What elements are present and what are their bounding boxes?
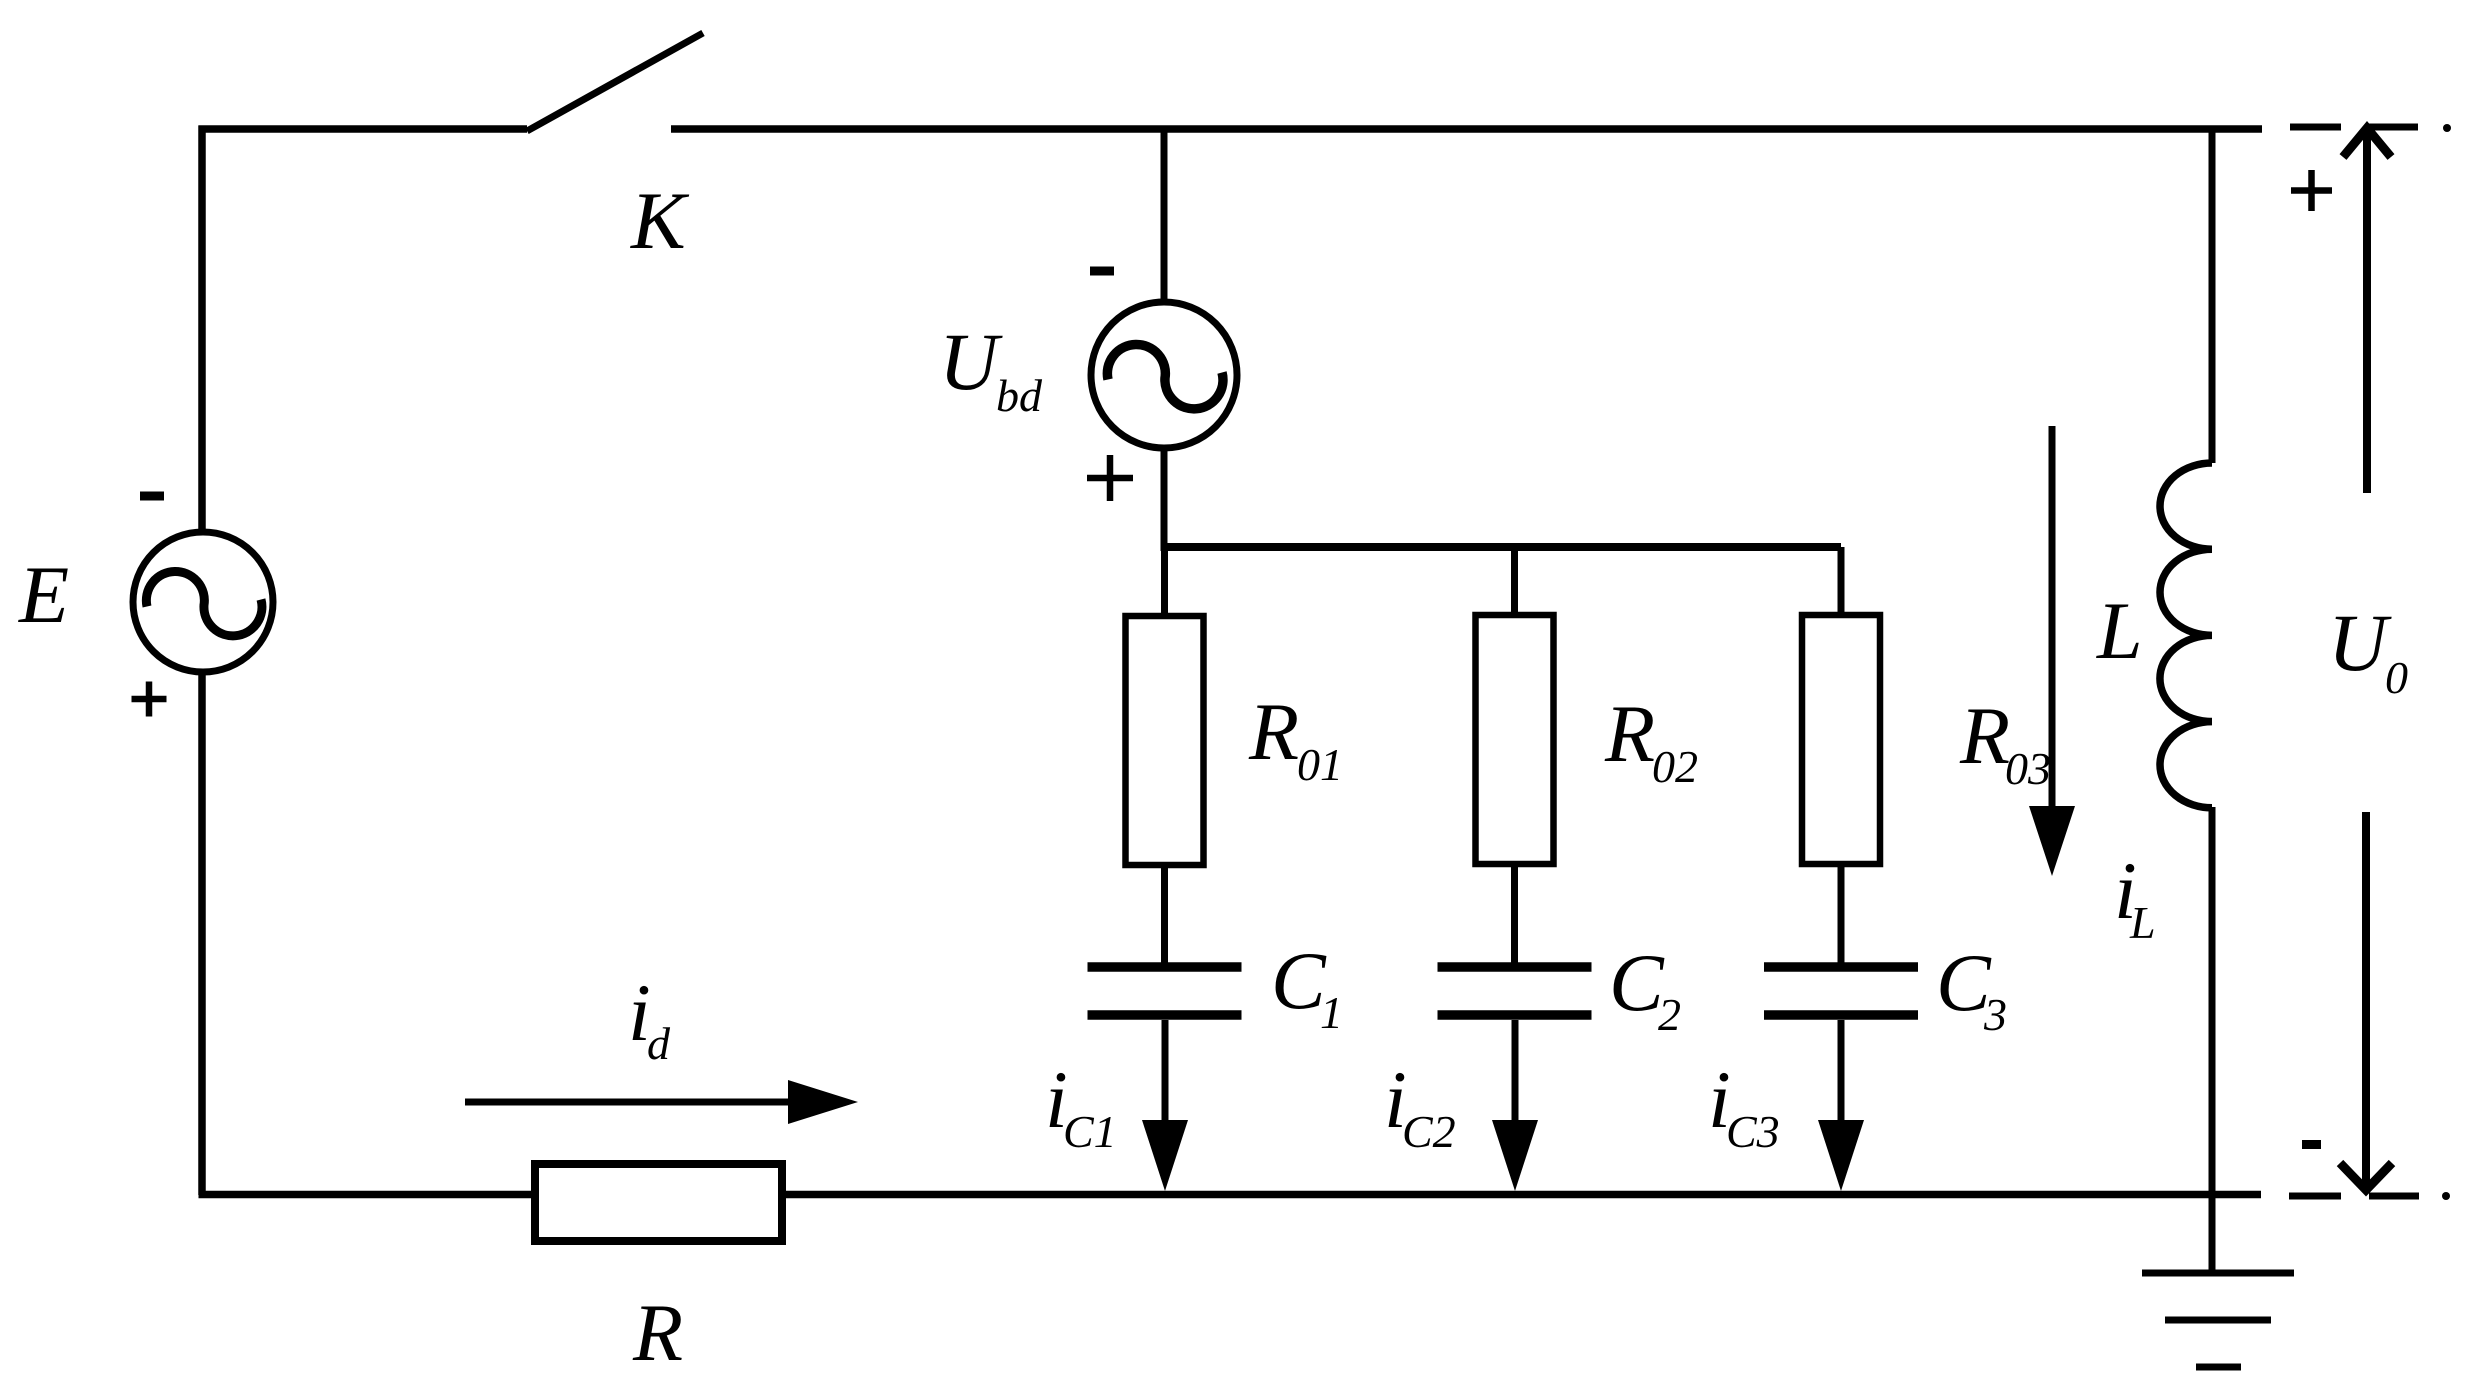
label iC3 (1708, 1054, 1780, 1157)
wire branch3 stub (1838, 547, 1845, 619)
svg-text:3: 3 (1983, 989, 2007, 1040)
wire top-right segment (671, 125, 2262, 133)
svg-text:L: L (2096, 585, 2143, 676)
label C3 (1936, 937, 2007, 1040)
svg-text:R: R (1248, 686, 1299, 777)
ground bar 1 (2142, 1270, 2294, 1277)
wire branch2 stub (1511, 547, 1518, 619)
svg-text:L: L (2129, 897, 2156, 948)
wire branch1 stub (1161, 547, 1168, 619)
current arrow iC1 (1142, 1020, 1188, 1191)
svg-text:1: 1 (1320, 987, 1343, 1038)
wire bottom (199, 1191, 2262, 1199)
svg-text:C2: C2 (1402, 1106, 1456, 1157)
svg-text:C: C (1271, 935, 1327, 1026)
inductor L coils (2160, 463, 2212, 808)
svg-text:bd: bd (996, 370, 1043, 421)
U0 bottom arrow (2340, 812, 2392, 1190)
node junction horizontal wire (1164, 543, 1841, 551)
label iC2 (1384, 1054, 1456, 1157)
svg-text:01: 01 (1297, 739, 1343, 790)
AC source Ubd sine (1107, 344, 1223, 408)
svg-text:U: U (2328, 597, 2392, 688)
E minus sign (140, 492, 164, 501)
svg-text:d: d (647, 1018, 671, 1069)
svg-text:03: 03 (2005, 743, 2051, 794)
label R03 (1959, 690, 2051, 794)
wire Ubd stub top (1161, 129, 1168, 303)
AC source E sine (146, 571, 262, 635)
svg-text:C3: C3 (1726, 1106, 1780, 1157)
label L (2096, 585, 2143, 676)
wire left vertical upper (198, 126, 206, 534)
label C2 (1609, 937, 1681, 1040)
svg-text:C: C (1609, 937, 1665, 1028)
resistor R01 (1126, 616, 1204, 865)
label R (632, 1287, 683, 1378)
wire R03 to C3 (1838, 864, 1845, 963)
wire left vertical lower (198, 672, 206, 1195)
current arrow id (465, 1080, 858, 1124)
capacitor C1 (1088, 967, 1242, 1015)
svg-text:0: 0 (2385, 652, 2408, 703)
label E (18, 549, 69, 640)
resistor R03 (1802, 615, 1880, 864)
Ubd plus sign (1087, 455, 1133, 501)
label iL (2114, 845, 2156, 948)
capacitor C3 (1764, 967, 1918, 1015)
label U0 (2328, 597, 2408, 703)
inductor L wire lower (2209, 807, 2216, 1194)
resistor R02 (1476, 615, 1554, 864)
AC source E circle (133, 532, 273, 672)
AC source Ubd circle (1091, 302, 1237, 448)
resistor R (bottom) (535, 1164, 782, 1241)
svg-text:U: U (939, 316, 1003, 407)
svg-text:K: K (630, 175, 690, 266)
wire R02 to C2 (1511, 864, 1518, 963)
Ubd minus sign (1090, 267, 1114, 276)
U0 plus sign (2291, 170, 2332, 211)
current arrow iC2 (1492, 1020, 1538, 1191)
wire top-left segment (199, 125, 528, 133)
label R02 (1604, 688, 1698, 792)
svg-text:R: R (1959, 690, 2010, 781)
U0 minus sign (2302, 1140, 2321, 1149)
wire Ubd stub bottom (1161, 445, 1168, 551)
capacitor C2 (1438, 967, 1592, 1015)
svg-text:2: 2 (1658, 989, 1681, 1040)
svg-text:R: R (632, 1287, 683, 1378)
label C1 (1271, 935, 1343, 1038)
label id (628, 967, 671, 1069)
ground bar 3 (2196, 1364, 2241, 1371)
switch K label (630, 175, 690, 266)
svg-text:E: E (18, 549, 69, 640)
label iC1 (1045, 1054, 1117, 1157)
svg-text:C1: C1 (1063, 1106, 1117, 1157)
U0 bottom dashed line (2289, 1192, 2450, 1200)
current arrow iC3 (1818, 1020, 1864, 1191)
E plus sign (132, 682, 167, 717)
label Ubd (939, 316, 1043, 421)
U0 top arrow (2343, 128, 2391, 493)
wire R01 to C1 (1161, 865, 1168, 963)
current arrow iL (2029, 426, 2075, 876)
label R01 (1248, 686, 1343, 790)
ground bar 2 (2165, 1317, 2271, 1324)
switch K blade (527, 33, 703, 131)
svg-text:R: R (1604, 688, 1655, 779)
ground stem (2209, 1194, 2216, 1273)
inductor L wire upper (2209, 129, 2216, 463)
U0 top dashed line (2290, 124, 2451, 132)
svg-text:02: 02 (1652, 741, 1698, 792)
